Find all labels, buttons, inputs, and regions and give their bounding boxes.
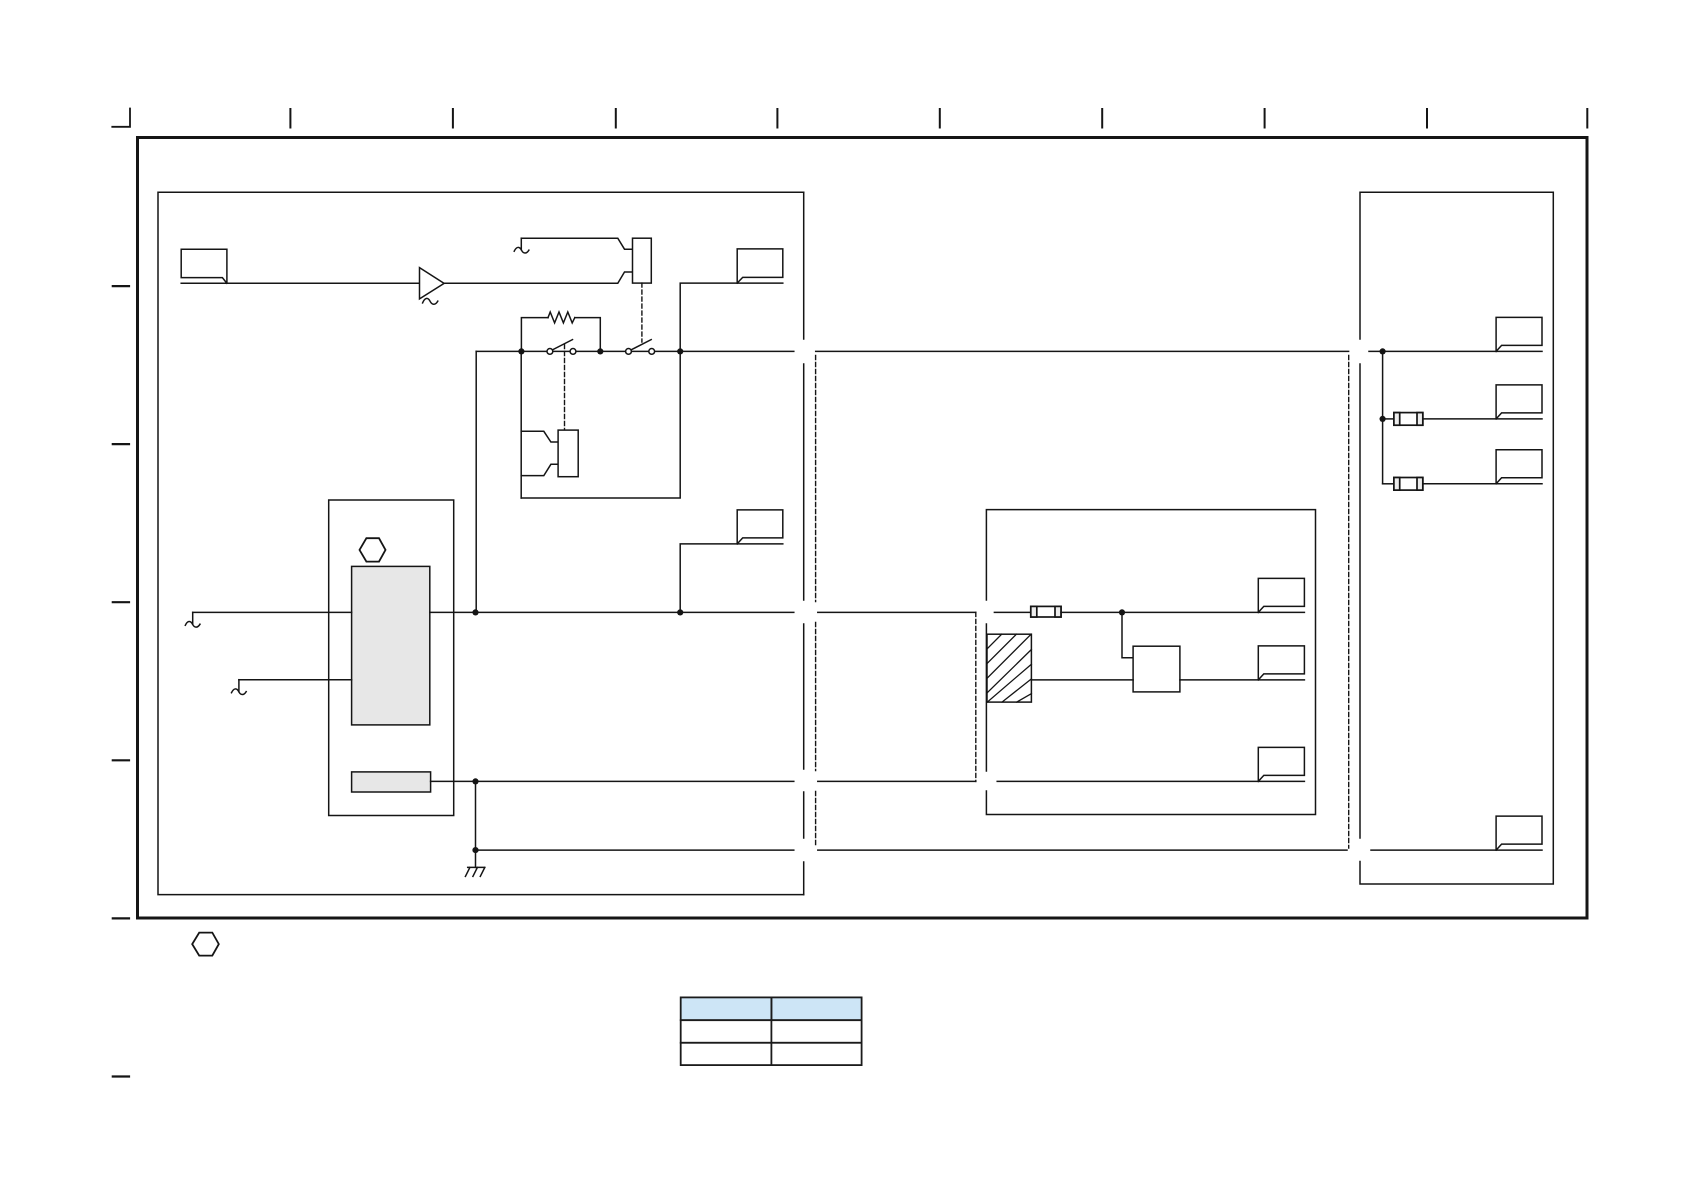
connector CN1 (633, 238, 652, 283)
wire: F3 to callout R3 (1423, 483, 1542, 485)
sub board outline (middle dashed module) (815, 356, 817, 848)
IC U1 (shaded) (352, 566, 430, 725)
node: bus junction dots (518, 348, 524, 354)
wire: line2 across sub board (818, 780, 1305, 782)
callout flag R3 (1496, 450, 1542, 484)
callout flag L2 (737, 249, 783, 283)
callout flag M2 (1258, 646, 1304, 680)
hatched block (987, 634, 1031, 702)
squiggle lead A (192, 612, 194, 624)
wire: lead B to IC (239, 679, 352, 681)
wire: to fuse F2 (1383, 418, 1394, 420)
wire: U3 to callout M2 (1180, 679, 1305, 681)
dashed tie line (975, 612, 977, 781)
wire: branch to block (1122, 612, 1133, 657)
wire: signal line 2 (IC U2 out) (431, 780, 794, 782)
fuse F3 (1394, 478, 1423, 491)
node: line1 junctions (472, 609, 478, 615)
wire: line1 across sub board (818, 611, 1031, 613)
wire: loop left leg down to CN2 (520, 351, 522, 498)
wire: F1 to callout M1 (1061, 611, 1304, 613)
switch S1 (547, 349, 553, 355)
ground (465, 867, 484, 876)
wire: drop to ground rail (475, 781, 477, 867)
callout flag L1 (181, 249, 227, 283)
hexagon marker H1 (360, 538, 386, 561)
resistor R (548, 312, 575, 323)
callout flag R2 (1496, 385, 1542, 419)
wire: CN2 bottom lead (521, 464, 558, 475)
sheet border frame and ruler ticks (decorative) (138, 138, 1588, 919)
resistor bypass loop (521, 318, 600, 352)
squiggle lead into CN1 (520, 238, 522, 249)
wire: right branch drop (1382, 351, 1384, 483)
fuse F1 (1031, 606, 1061, 617)
callout flag L3 (737, 510, 783, 544)
inner block outline (middle module) (986, 510, 1315, 815)
wire: bus across sub board (816, 350, 1349, 352)
callout flag R4 (1496, 816, 1542, 850)
wire: hatched block to U3 (1031, 679, 1133, 681)
squiggle lead B (238, 680, 240, 692)
connector CN2 (558, 430, 578, 477)
wire: ground rail across sub board (818, 849, 1347, 851)
wire: L2 underline and drop to bus (680, 283, 783, 351)
wire: bus into right module (1369, 350, 1542, 352)
wire: ground rail into right module (1371, 849, 1542, 851)
wire: buffer to connector CN1 (444, 272, 632, 283)
hexagon marker H2 (192, 933, 219, 956)
switch S2 (626, 349, 632, 355)
right module outline (1360, 192, 1553, 884)
wire: F2 to callout R2 (1423, 418, 1542, 420)
fuse F2 (1394, 413, 1423, 426)
squiggle under buffer (423, 298, 438, 304)
buffer amplifier (420, 268, 445, 299)
callout flag M3 (1258, 747, 1304, 781)
wire: lead A to IC (193, 611, 352, 613)
block U3 (1133, 646, 1180, 692)
callout flag R1 (1496, 317, 1542, 351)
wire: CN1 top lead (521, 238, 632, 249)
wire: main bus (left module) (476, 350, 794, 352)
IC U2 (shaded) (352, 772, 431, 792)
node: branch junction (1119, 609, 1125, 615)
main board outline (left module) (158, 192, 804, 894)
wire: CN2 top lead (521, 431, 558, 442)
parts table (681, 997, 862, 1065)
wire: signal line 1 (IC to module edge) (430, 611, 794, 613)
wire: loop bottom return (521, 351, 680, 498)
IC block outline (329, 500, 454, 816)
wire: ground rail line 3 (476, 849, 794, 851)
node: right bus junction (1380, 348, 1386, 354)
wire: L3 underline and drop (680, 544, 783, 613)
wire: L1 to buffer (181, 282, 419, 284)
callout flag M1 (1258, 578, 1304, 612)
wire: bus drop to signal line (475, 351, 477, 612)
wire: to fuse F3 (1383, 483, 1394, 485)
